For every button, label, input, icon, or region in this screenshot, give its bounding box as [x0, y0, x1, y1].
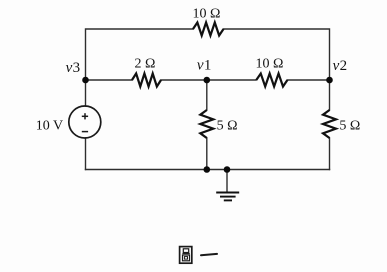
svg-text:v1: v1 — [197, 58, 212, 74]
svg-text:v2: v2 — [333, 58, 348, 74]
svg-text:v3: v3 — [66, 60, 81, 76]
svg-text:5 Ω: 5 Ω — [339, 119, 360, 134]
svg-text:5 Ω: 5 Ω — [217, 119, 238, 134]
svg-text:2 Ω: 2 Ω — [135, 56, 156, 71]
svg-text:10 Ω: 10 Ω — [256, 56, 284, 71]
svg-text:10 V: 10 V — [36, 119, 63, 134]
svg-text:10 Ω: 10 Ω — [193, 7, 221, 22]
